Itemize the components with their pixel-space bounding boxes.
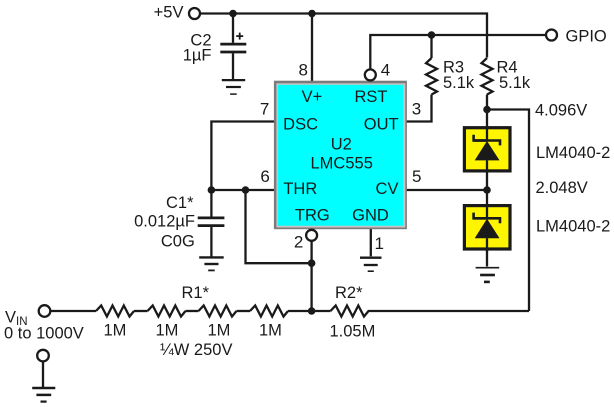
capacitor C1 plates bbox=[198, 218, 225, 226]
wire C2 branch bottom bbox=[232, 53, 234, 79]
svg-text:5: 5 bbox=[412, 167, 421, 186]
wire pin 6 THR bbox=[211, 189, 274, 191]
svg-text:2.048V: 2.048V bbox=[536, 179, 588, 197]
svg-text:CV: CV bbox=[376, 180, 399, 198]
svg-text:DSC: DSC bbox=[283, 115, 318, 133]
ground under IC pin 1 bbox=[360, 258, 382, 272]
svg-text:0 to 1000V: 0 to 1000V bbox=[4, 324, 84, 342]
IC U2 LMC555 body bbox=[274, 81, 407, 230]
svg-text:1M: 1M bbox=[156, 322, 179, 340]
svg-text:4: 4 bbox=[381, 60, 390, 79]
junction dot THR/TRG branch bbox=[242, 186, 250, 194]
svg-text:5.1k: 5.1k bbox=[499, 74, 531, 92]
svg-text:OUT: OUT bbox=[364, 115, 399, 133]
ground under diode D2 bbox=[476, 268, 500, 282]
wire C1 top lead bbox=[210, 190, 212, 217]
svg-text:RST: RST bbox=[355, 88, 388, 106]
wire R3 top bbox=[430, 35, 432, 58]
svg-text:U2: U2 bbox=[331, 136, 352, 154]
wire pin 8 V+ bbox=[311, 14, 313, 82]
wire +5V rail bbox=[201, 14, 487, 58]
diode D2 zener symbol bbox=[474, 205, 500, 252]
terminal circle VIN bbox=[39, 305, 51, 317]
svg-text:4.096V: 4.096V bbox=[535, 102, 587, 120]
terminal circle GPIO bbox=[546, 30, 557, 41]
svg-text:8: 8 bbox=[299, 60, 308, 79]
resistor R2 zigzag bbox=[331, 306, 372, 317]
svg-text:0.012µF: 0.012µF bbox=[134, 212, 195, 230]
wire RST to GPIO bbox=[370, 35, 546, 70]
ground under C2 bbox=[222, 80, 245, 94]
svg-text:GPIO: GPIO bbox=[566, 27, 607, 45]
wire diode D2 top lead bbox=[486, 190, 488, 204]
ground under C1 bbox=[199, 257, 224, 270]
pin 2 circle bbox=[306, 230, 317, 241]
wire pin 2 TRG down bbox=[310, 241, 312, 311]
svg-text:THR: THR bbox=[283, 180, 317, 198]
resistor R3 zigzag bbox=[426, 58, 437, 95]
resistor R4 zigzag bbox=[482, 58, 493, 95]
resistor R1 zigzag 3 bbox=[199, 306, 237, 317]
wire pin 1 GND bbox=[370, 229, 372, 256]
wire R4 bottom bbox=[486, 95, 488, 110]
diode box LM4040 D1 bbox=[464, 128, 510, 171]
junction dot THR/C1 bbox=[208, 186, 216, 194]
svg-text:+5V: +5V bbox=[154, 4, 184, 22]
wire ground return stub bbox=[42, 361, 44, 387]
junction dot +5V/C2 bbox=[229, 10, 237, 18]
junction dot 2.048V node bbox=[483, 186, 491, 194]
svg-text:LM4040-2: LM4040-2 bbox=[536, 218, 610, 236]
resistor R1 zigzag 2 bbox=[148, 306, 186, 317]
wire pin 7 DSC loop bbox=[211, 122, 274, 191]
capacitor C2 plates bbox=[220, 44, 246, 52]
junction dot TRG wire bbox=[308, 259, 316, 267]
wire diode D1 top lead bbox=[486, 110, 488, 128]
wire VIN to R1 bbox=[50, 310, 96, 312]
svg-text:¼W 250V: ¼W 250V bbox=[160, 341, 232, 359]
wire R1 segment joints bbox=[134, 310, 148, 312]
wire C2 branch top bbox=[232, 14, 234, 43]
wire THR to TRG link bbox=[246, 190, 312, 263]
ground at VIN return bbox=[32, 388, 55, 402]
svg-text:R2*: R2* bbox=[335, 284, 363, 302]
terminal circle +5V bbox=[189, 8, 200, 19]
svg-text:1M: 1M bbox=[104, 322, 127, 340]
svg-text:1.05M: 1.05M bbox=[330, 323, 376, 341]
wire C1 bottom lead bbox=[210, 227, 212, 257]
svg-text:LM4040-2: LM4040-2 bbox=[536, 144, 610, 162]
capacitor C2 plus sign bbox=[236, 33, 243, 40]
svg-text:6: 6 bbox=[260, 167, 269, 186]
svg-text:1: 1 bbox=[375, 234, 384, 253]
wire diode D2 bottom lead bbox=[486, 251, 488, 267]
diode box LM4040 D2 bbox=[464, 206, 510, 249]
svg-text:2: 2 bbox=[294, 233, 303, 252]
svg-text:7: 7 bbox=[260, 100, 269, 119]
diode D1 zener symbol bbox=[474, 127, 500, 173]
resistor R1 zigzag 1 bbox=[96, 306, 134, 317]
terminal circle ground return bbox=[37, 350, 49, 362]
wire R1 to junction bbox=[288, 310, 331, 312]
svg-text:C0G: C0G bbox=[161, 232, 195, 250]
wire R3 bottom to pin 3 bbox=[407, 95, 432, 122]
svg-text:C1*: C1* bbox=[166, 194, 194, 212]
wire pin 5 CV to 2.048V node bbox=[407, 189, 488, 191]
wire 4.096V node to R2 right bbox=[487, 110, 529, 312]
wire diode D1 bottom lead bbox=[486, 173, 488, 191]
pin 4 circle bbox=[365, 69, 376, 80]
junction dot 4.096V node bbox=[483, 106, 491, 114]
svg-text:1M: 1M bbox=[208, 322, 231, 340]
svg-text:GND: GND bbox=[352, 206, 389, 224]
svg-text:LMC555: LMC555 bbox=[311, 155, 373, 173]
junction dot +5V/pin8 bbox=[308, 10, 316, 18]
junction dot R1/R2 bbox=[308, 307, 316, 315]
svg-text:3: 3 bbox=[412, 100, 421, 119]
wire R2 right to riser bbox=[371, 310, 529, 312]
resistor R1 zigzag 4 bbox=[250, 306, 288, 317]
svg-text:TRG: TRG bbox=[295, 206, 330, 224]
svg-text:5.1k: 5.1k bbox=[443, 74, 475, 92]
svg-text:1M: 1M bbox=[259, 322, 282, 340]
junction dot GPIO/R3 bbox=[428, 31, 436, 39]
svg-text:1µF: 1µF bbox=[183, 47, 212, 65]
svg-text:V+: V+ bbox=[302, 88, 323, 106]
svg-text:R1*: R1* bbox=[182, 284, 210, 302]
